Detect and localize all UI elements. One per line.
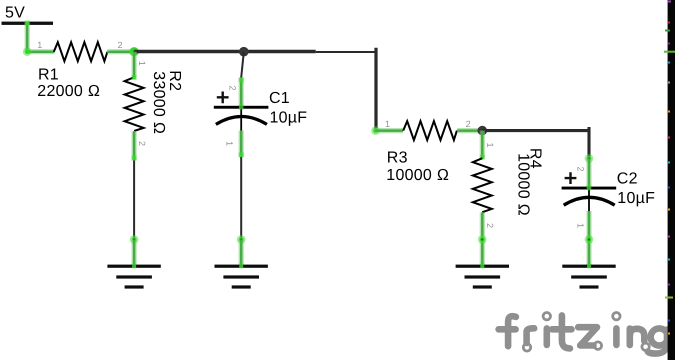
wire node A to R1 pin1	[27, 49, 54, 54]
capacitor C2 pin1 lead + ground 4 lead	[586, 211, 591, 267]
ground 4 symbol	[562, 265, 615, 289]
wire C1 to ground 2	[240, 157, 242, 240]
svg-text:2: 2	[576, 167, 586, 172]
resistor R2 pin1 lead	[132, 52, 137, 77]
svg-text:C1: C1	[269, 90, 290, 107]
wire R1 pin2 lead	[107, 49, 134, 54]
resistor R4 zigzag	[473, 158, 492, 212]
resistor R3 zigzag	[403, 121, 457, 140]
screen edge colored specks	[664, 1, 675, 335]
junction dot to C1	[239, 47, 249, 57]
svg-text:5V: 5V	[5, 5, 25, 22]
wire 5V bar to node A (vertical)	[25, 23, 30, 52]
svg-text:2: 2	[466, 119, 471, 129]
resistor R3 pin1 lead	[376, 128, 403, 133]
capacitor C2 pin2 lead	[586, 159, 591, 188]
C1 plus sign	[217, 92, 229, 104]
wire end dot ground 4	[585, 235, 594, 244]
svg-text:33000 Ω: 33000 Ω	[150, 71, 167, 134]
resistor R2 zigzag	[125, 77, 144, 131]
svg-text:10µF: 10µF	[270, 109, 308, 126]
svg-text:22000 Ω: 22000 Ω	[37, 83, 100, 100]
svg-text:2: 2	[228, 86, 238, 91]
C2 plus sign	[565, 172, 577, 184]
svg-text:10µF: 10µF	[617, 190, 655, 207]
svg-text:R3: R3	[387, 150, 408, 167]
C1 top plate	[214, 106, 269, 109]
ground 1 pin lead	[132, 240, 137, 267]
svg-text:1: 1	[576, 223, 586, 228]
svg-text:1: 1	[485, 143, 495, 148]
capacitor C1 pin2 lead	[239, 78, 244, 108]
C2 top plate	[562, 187, 617, 190]
ground 2 pin lead	[239, 240, 244, 267]
svg-text:1: 1	[137, 61, 147, 66]
C2 curved plate	[564, 197, 615, 205]
pin square R2 pin1	[132, 75, 137, 80]
pin square 5V	[25, 21, 30, 26]
wire junction to C1 pin2	[241, 52, 244, 78]
svg-text:2: 2	[118, 40, 123, 50]
svg-text:2: 2	[485, 223, 495, 228]
fritzing watermark logo	[499, 315, 667, 353]
node B junction (R1/R2/wire)	[129, 47, 139, 57]
pin square R2 pin2	[132, 155, 137, 160]
capacitor C1 pin1 lead	[239, 131, 244, 158]
C2 center lead through plates	[588, 189, 590, 215]
wire end dot ground 2	[237, 235, 246, 244]
resistor R4 pin1 lead	[480, 131, 485, 159]
svg-text:R2: R2	[166, 70, 183, 91]
wire end dot at R3 pin1	[371, 126, 380, 135]
pin square R4 pin1	[480, 155, 485, 160]
wire end dot at C2 pin2	[585, 154, 594, 163]
svg-text:2: 2	[137, 141, 147, 146]
wire end dot ground 3	[478, 235, 487, 244]
ground 1 symbol	[107, 265, 160, 289]
svg-text:10000 Ω: 10000 Ω	[386, 167, 449, 184]
ground 3 symbol	[456, 265, 509, 289]
resistor R4 pin2 lead + ground 3 lead	[480, 212, 485, 266]
svg-text:1: 1	[385, 119, 390, 129]
svg-text:10000 Ω: 10000 Ω	[514, 153, 531, 216]
svg-text:1: 1	[225, 141, 235, 146]
resistor R1 zigzag	[54, 42, 108, 61]
junction dot node C (R3/R4/wire)	[478, 126, 488, 136]
screen edge black bar	[668, 0, 675, 360]
C1 curved plate	[216, 117, 267, 125]
wire R2 to ground 1	[133, 161, 135, 241]
wire main top run to corner and down to R3	[134, 50, 316, 53]
fritzing g bowl	[651, 328, 668, 345]
node A endpoint dot	[23, 47, 32, 56]
ground 2 symbol	[215, 265, 268, 289]
power rail bar	[2, 22, 54, 25]
svg-text:1: 1	[37, 40, 42, 50]
svg-text:C2: C2	[617, 171, 638, 188]
pin square C1 pin1	[239, 152, 244, 157]
wire end dot ground 1	[130, 235, 139, 244]
C1 center lead through plates	[240, 108, 242, 134]
svg-text:R1: R1	[38, 66, 59, 83]
resistor R2 pin2 lead	[132, 131, 137, 160]
pin square C1 pin2	[239, 78, 244, 83]
resistor R3 pin2 lead	[457, 128, 482, 133]
wire node C to C2 corner	[482, 129, 590, 132]
